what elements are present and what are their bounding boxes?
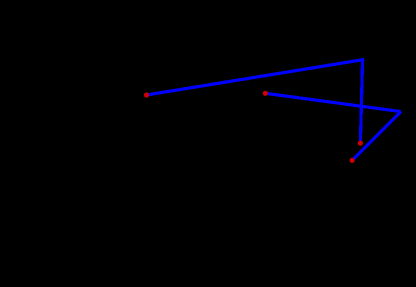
- wire A-E: [147, 60, 365, 96]
- wire F-D: [352, 112, 401, 161]
- wire B-F: [265, 93, 401, 111]
- node C: [358, 141, 363, 146]
- wire E-C: [360, 58, 362, 143]
- node A: [144, 92, 149, 97]
- node B: [263, 91, 268, 96]
- node D: [350, 158, 355, 163]
